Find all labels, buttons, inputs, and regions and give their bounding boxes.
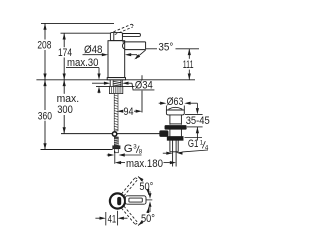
wire: 174/max300 dimension line <box>63 33 65 47</box>
arrow max300 bottom <box>63 127 66 133</box>
svg-text:41: 41 <box>108 214 117 226</box>
svg-text:max.180: max.180 <box>126 158 163 170</box>
dashed swung lever up 50 <box>122 178 138 196</box>
svg-text:50°: 50° <box>139 181 153 193</box>
svg-text:300: 300 <box>57 104 73 116</box>
arrow 111 top <box>188 49 191 55</box>
dim 111 <box>188 49 190 80</box>
arrow 35-45 top <box>196 108 199 114</box>
dim diameter 63 <box>159 103 198 110</box>
raised lever (dashed) <box>114 24 134 34</box>
arrow 94 right <box>136 110 142 113</box>
wire: 208 top reference line <box>41 22 114 24</box>
ball joint nut <box>160 131 168 137</box>
dim max.180 <box>115 151 170 164</box>
arrow lever-end upper <box>149 193 152 198</box>
arrow 94 left <box>117 110 123 113</box>
faucet handle cap <box>110 33 140 41</box>
arrow 35deg leader <box>134 54 140 59</box>
arrow dia34 left <box>104 82 110 85</box>
50 deg swing arcs <box>138 177 149 226</box>
lever bar top view <box>125 196 146 204</box>
arrow 208 top <box>43 23 46 29</box>
lever knob pill <box>117 197 121 205</box>
G3/8 nut band <box>113 146 121 149</box>
arrow G38 left <box>108 153 114 156</box>
body mid <box>169 129 171 136</box>
svg-text:208: 208 <box>37 40 51 52</box>
faucet body <box>107 41 145 80</box>
dim 41 <box>95 211 127 226</box>
svg-text:1: 1 <box>200 139 204 146</box>
arrow 174 deck pair <box>63 74 66 80</box>
technical dimension drawing: single-lever basin mixer with pop-up waste <box>0 0 250 250</box>
arrow swing-arc lower start <box>146 207 149 213</box>
svg-text:Ø63: Ø63 <box>167 96 184 108</box>
arrow dia63 left <box>160 102 166 105</box>
lever bar <box>122 34 140 37</box>
svg-text:max.: max. <box>57 93 80 105</box>
arrow 174 top <box>63 33 66 39</box>
wire: countertop deck line <box>36 79 110 81</box>
arrow 360 bottom <box>43 143 46 149</box>
arrow G38 right <box>119 153 125 156</box>
wire: deck underside line <box>96 86 110 88</box>
body circle <box>110 193 125 208</box>
dim G1 1/4 <box>163 150 208 153</box>
arrow 41 left <box>100 217 106 220</box>
arrow lever-end lower <box>149 201 152 206</box>
tailpipe thread <box>169 140 171 152</box>
svg-text:Ø48: Ø48 <box>84 44 103 56</box>
ball joint at faucet <box>112 132 116 136</box>
threaded shank <box>113 80 121 131</box>
dim diameter 34 <box>92 83 154 90</box>
arrow dia34 right <box>122 82 128 85</box>
arrow swing-arc upper start <box>146 189 149 195</box>
bar end dim <box>149 189 151 194</box>
svg-text:111: 111 <box>183 59 194 71</box>
arrow 208 deck pair <box>43 74 46 80</box>
arrow 41 right <box>118 217 124 220</box>
arrow swing-arc lower end <box>138 221 143 226</box>
svg-text:G1: G1 <box>188 138 199 150</box>
svg-text:G: G <box>124 143 133 155</box>
body-spout fillet <box>123 43 125 50</box>
dim 94 <box>123 110 137 112</box>
body rim line <box>170 123 182 125</box>
svg-text:35°: 35° <box>158 42 173 54</box>
arrow G114 leader <box>176 152 182 155</box>
svg-text:35-45: 35-45 <box>186 115 210 127</box>
arrow 111 bottom <box>188 74 191 80</box>
bar centerline stub <box>146 199 152 201</box>
svg-text:360: 360 <box>38 111 52 123</box>
dim 35-45 <box>185 103 203 140</box>
svg-text:94: 94 <box>124 106 134 118</box>
dim G3/8 arrows <box>107 154 142 156</box>
tailpipe narrow pipe <box>172 140 174 166</box>
wire: 174 top reference line <box>61 32 111 34</box>
white gaps for 50 deg labels <box>139 181 154 191</box>
pop-up rod vertical <box>141 75 143 80</box>
gasket <box>165 126 186 130</box>
arrow 35-45 bottom <box>196 127 199 133</box>
svg-text:3: 3 <box>133 143 137 150</box>
escutcheon base <box>107 78 125 80</box>
arrow max30 lower <box>97 87 100 93</box>
locknut <box>167 137 183 141</box>
rod lower hose strip <box>114 137 118 146</box>
svg-text:8: 8 <box>139 148 143 155</box>
hose end stub <box>114 149 118 153</box>
plug dome <box>169 107 182 110</box>
svg-text:4: 4 <box>205 144 209 151</box>
svg-text:Ø34: Ø34 <box>135 80 153 92</box>
wire: deck hole edges <box>109 80 111 87</box>
arrow max30 upper <box>97 74 100 80</box>
dashed swung lever down 50 <box>122 206 138 224</box>
arrow max180 left <box>115 161 121 164</box>
horizontal linkage rod <box>61 133 163 135</box>
body upper <box>169 115 171 125</box>
arrow dia48 right <box>125 53 131 56</box>
arrow swing-arc upper end <box>138 177 143 182</box>
arrow dia48 left <box>102 53 108 56</box>
arrow max180 right <box>170 161 176 164</box>
arrow dia63 right <box>184 102 190 105</box>
wire: 360 bottom reference line <box>41 149 113 151</box>
svg-text:50°: 50° <box>141 213 155 225</box>
flange <box>166 110 184 115</box>
mounting nut under deck <box>109 87 122 94</box>
wire: 208/360 dimension line <box>44 23 46 39</box>
arrow G114 left <box>166 152 172 155</box>
svg-text:max.30: max.30 <box>67 57 99 69</box>
spout <box>122 41 145 43</box>
